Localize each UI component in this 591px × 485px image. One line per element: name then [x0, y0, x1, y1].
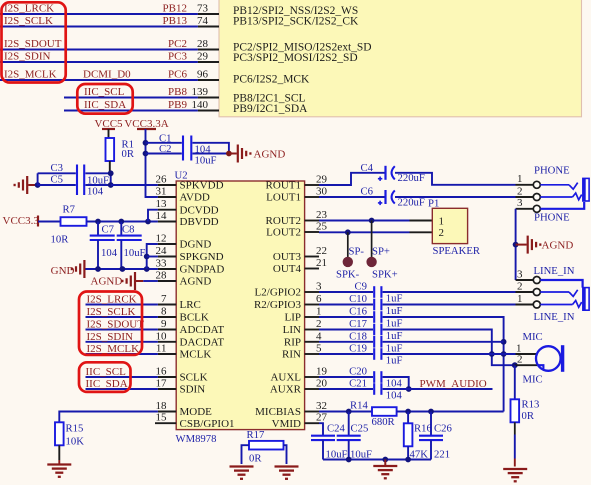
- svg-text:VCC3.3: VCC3.3: [3, 215, 40, 227]
- MIC label (bottom): [523, 373, 543, 385]
- wire IIC_SDA to chip: [86, 388, 158, 390]
- pin name AGND: [180, 276, 212, 288]
- power port VCC3.3: [3, 215, 40, 227]
- svg-text:21: 21: [316, 257, 327, 269]
- svg-text:1uF: 1uF: [386, 355, 403, 367]
- svg-text:IIC_SDA: IIC_SDA: [86, 378, 128, 390]
- port label PB12: [163, 3, 187, 15]
- pin 16 SCLK stub: [158, 376, 176, 378]
- pin 21 OUT4 stub: [305, 268, 319, 270]
- svg-text:BCLK: BCLK: [180, 312, 209, 324]
- LINE_IN pin 3: [516, 268, 541, 283]
- pin 5 RIN stub: [305, 353, 319, 355]
- junction C7 bottom: [95, 266, 101, 272]
- svg-text:2: 2: [517, 185, 523, 197]
- PHONE pin 1 contact: [540, 183, 577, 190]
- net label I2S_LRCK (chip): [87, 294, 137, 306]
- pin name RIN: [282, 349, 301, 361]
- wire VCC3.3 to R7: [38, 221, 61, 223]
- svg-text:RIP: RIP: [284, 337, 301, 349]
- pin name LIP: [285, 312, 302, 324]
- capacitor C8 10uF: [117, 222, 146, 270]
- pin 22 OUT3 stub: [305, 256, 319, 258]
- LINE_IN pin 2 contact: [540, 290, 577, 297]
- svg-text:220uF: 220uF: [398, 172, 425, 184]
- port label PB9: [168, 99, 187, 111]
- pin 1 LIP stub: [305, 316, 319, 318]
- svg-text:LOUT2: LOUT2: [266, 227, 301, 239]
- svg-text:1uF: 1uF: [386, 342, 403, 354]
- svg-text:7: 7: [161, 293, 167, 305]
- wire net to MCU pin PC3: [0, 61, 198, 63]
- pin 32 MICBIAS stub: [305, 411, 319, 413]
- pin 6 R2/GPIO3 stub: [305, 304, 319, 306]
- pin 24 SPKGND stub: [158, 256, 176, 258]
- pin name CSB/GPIO1: [180, 418, 235, 430]
- wire branch to DCVDD pin 13: [148, 210, 158, 222]
- svg-text:SPKGND: SPKGND: [180, 251, 224, 263]
- pin name MICBIAS: [255, 406, 301, 418]
- svg-text:L2/GPIO2: L2/GPIO2: [255, 287, 301, 299]
- svg-text:PB9: PB9: [168, 99, 187, 111]
- pin number 18: [156, 400, 168, 412]
- pin name RIP: [284, 337, 301, 349]
- speaker pin 1 stub: [410, 220, 433, 222]
- pin number 3: [316, 281, 322, 293]
- capacitor C10 1uF: [319, 293, 402, 317]
- svg-text:I2S_SDOUT: I2S_SDOUT: [87, 319, 145, 331]
- pin 23 ROUT2 stub: [305, 220, 319, 222]
- wire to SPKVDD pin 26: [111, 184, 158, 186]
- pin number 8: [161, 306, 167, 318]
- pin name MCLK: [180, 349, 212, 361]
- junction SPKGND row: [144, 254, 150, 260]
- pin number 24: [156, 245, 168, 257]
- junction on stem at C1 row: [143, 140, 149, 146]
- svg-text:18: 18: [156, 400, 168, 412]
- svg-text:11: 11: [156, 343, 167, 355]
- pin 31 AVDD stub: [158, 196, 176, 198]
- svg-text:C24: C24: [327, 422, 345, 434]
- ground GND (digital): [51, 260, 85, 278]
- wire R17 left lead to ground: [242, 445, 250, 464]
- svg-text:1uF: 1uF: [386, 305, 403, 317]
- svg-text:IIC_SCL: IIC_SCL: [86, 366, 127, 378]
- svg-text:PB13: PB13: [163, 15, 188, 27]
- pin name MODE: [180, 406, 213, 418]
- junction C25 top: [346, 409, 352, 415]
- wire C6 to PHONE pin 2: [395, 196, 516, 198]
- pin number 21: [316, 257, 327, 269]
- net label I2S_SCLK (chip): [87, 306, 136, 318]
- wire LOUT1 pin 30 to C6: [319, 196, 385, 198]
- capacitor C5 104: [38, 174, 104, 198]
- chip name WM8978: [176, 433, 217, 445]
- ground AGND (near C1/C2): [229, 145, 285, 163]
- net label I2S_MCLK (chip): [87, 343, 140, 355]
- wire I2S_SDIN to chip: [86, 341, 158, 343]
- capacitor C6 220uF: [361, 185, 425, 208]
- svg-text:R2/GPIO3: R2/GPIO3: [254, 299, 302, 311]
- svg-text:LINE_IN: LINE_IN: [534, 265, 575, 277]
- net label I2S_LRCK: [4, 3, 54, 15]
- svg-text:C3: C3: [51, 162, 63, 174]
- wire PWM_AUDIO net: [383, 388, 493, 390]
- svg-text:OUT4: OUT4: [273, 263, 302, 275]
- svg-text:C21: C21: [349, 378, 367, 390]
- svg-text:10uF: 10uF: [350, 448, 372, 460]
- svg-text:25: 25: [316, 221, 328, 233]
- svg-text:RIN: RIN: [282, 349, 301, 361]
- svg-text:29: 29: [197, 51, 209, 63]
- pin number 31: [156, 186, 167, 198]
- wire net to MCU pin PB8: [64, 97, 198, 99]
- net label IIC_SCL (top): [84, 86, 125, 98]
- svg-text:1: 1: [439, 215, 445, 227]
- svg-text:0R: 0R: [122, 148, 135, 160]
- svg-text:1uF: 1uF: [386, 330, 403, 342]
- junction at SPKVDD row: [108, 182, 114, 188]
- pin 25 LOUT2 stub: [305, 231, 319, 233]
- capacitor C2 10uF: [146, 143, 217, 166]
- pin number 30: [316, 186, 328, 198]
- net label DCMI_D0: [83, 69, 131, 81]
- pin name L2/GPIO2: [255, 287, 301, 299]
- port label PB13: [163, 15, 188, 27]
- wire R17 right lead to ground: [284, 445, 287, 464]
- junction R1 bottom at C3 row: [108, 170, 114, 176]
- pin number 26: [156, 174, 168, 186]
- capacitor C24 10uF: [311, 422, 348, 460]
- wire I2S_MCLK to chip: [86, 353, 158, 355]
- capacitor C16 1uF: [319, 306, 402, 330]
- junction R16 bottom: [405, 457, 411, 463]
- svg-text:R14: R14: [350, 399, 368, 411]
- highlight box around I2S net labels (top): [2, 2, 66, 82]
- svg-text:LIP: LIP: [285, 312, 302, 324]
- svg-text:SP+: SP+: [372, 245, 390, 257]
- svg-text:27: 27: [316, 412, 328, 424]
- wire net to MCU pin PB12: [0, 13, 198, 15]
- MCU port block U-STM32 (top yellow block): [219, 0, 582, 117]
- svg-text:LOUT1: LOUT1: [266, 192, 301, 204]
- svg-text:47K: 47K: [410, 448, 429, 460]
- svg-text:C18: C18: [349, 330, 367, 342]
- svg-text:AGND: AGND: [91, 275, 123, 287]
- junction C20/C21: [406, 386, 412, 392]
- pin name DCVDD: [180, 204, 219, 216]
- wire I2S_SDOUT to chip: [86, 329, 158, 331]
- svg-text:C16: C16: [349, 306, 367, 318]
- pin number 2: [316, 318, 322, 330]
- wire VMID pin 27 to C24: [319, 423, 323, 435]
- ground (left of R17): [230, 467, 254, 479]
- svg-text:33: 33: [156, 258, 168, 270]
- junction C3/C5 left node: [35, 182, 41, 188]
- svg-text:24: 24: [156, 245, 168, 257]
- pin name SCLK: [180, 372, 208, 384]
- MIC pin 2: [515, 354, 537, 366]
- svg-text:PC2: PC2: [168, 38, 187, 50]
- pin number 6: [316, 293, 322, 305]
- svg-text:74: 74: [197, 15, 209, 27]
- pin 20 AUXR stub: [305, 388, 319, 390]
- svg-text:C25: C25: [351, 422, 369, 434]
- svg-text:30: 30: [316, 186, 328, 198]
- svg-text:DGND: DGND: [180, 239, 212, 251]
- svg-text:AGND: AGND: [254, 149, 286, 161]
- pin PB9 stub: [198, 110, 219, 112]
- svg-text:5: 5: [316, 343, 322, 355]
- svg-text:C8: C8: [122, 223, 134, 235]
- svg-text:104: 104: [87, 185, 104, 197]
- svg-text:I2S_SDIN: I2S_SDIN: [87, 331, 134, 343]
- wire I2S_SCLK to chip: [86, 316, 158, 318]
- net label IIC_SDA (chip): [86, 378, 128, 390]
- pin number 19: [316, 366, 328, 378]
- svg-text:104: 104: [386, 378, 403, 390]
- wire ROUT1 pin 29 up to C4: [319, 173, 385, 185]
- wire PHONE pin 3 down to LINE_IN pin 3: [515, 209, 517, 280]
- test point SPK+: [366, 221, 397, 281]
- net label I2S_SDOUT: [4, 38, 62, 50]
- pin number 5: [316, 343, 322, 355]
- net label I2S_SCLK: [4, 15, 53, 27]
- wire net to MCU pin PC6: [0, 79, 198, 81]
- pin 19 AUXL stub: [305, 376, 319, 378]
- svg-text:AGND: AGND: [542, 240, 574, 252]
- svg-text:12: 12: [156, 233, 167, 245]
- pin number 14: [156, 210, 168, 222]
- svg-text:DCMI_D0: DCMI_D0: [83, 69, 131, 81]
- wire C10 to LINE_IN pin 1: [383, 304, 516, 306]
- svg-text:PC3: PC3: [168, 51, 187, 63]
- pin name LRC: [180, 299, 201, 311]
- junction C25 bottom: [346, 457, 352, 463]
- pin name LOUT2: [266, 227, 301, 239]
- svg-text:32: 32: [316, 400, 327, 412]
- wire C17 down mic return net: [383, 330, 515, 366]
- svg-text:26: 26: [156, 174, 168, 186]
- pin name ADCDAT: [180, 324, 225, 336]
- wire C3/C5 right plates to R1 node: [85, 173, 110, 185]
- junction at AGND node: [226, 151, 232, 157]
- svg-text:MIC: MIC: [523, 373, 543, 385]
- pin name OUT4: [273, 263, 302, 275]
- svg-text:22: 22: [316, 245, 327, 257]
- capacitor C1 104: [146, 132, 212, 160]
- pin number 20: [316, 378, 328, 390]
- svg-text:10uF: 10uF: [195, 154, 217, 166]
- junction C19 joins: [489, 351, 495, 357]
- svg-text:IIC_SCL: IIC_SCL: [84, 86, 125, 98]
- svg-text:MCLK: MCLK: [180, 349, 212, 361]
- svg-text:SPEAKER: SPEAKER: [433, 245, 481, 257]
- pin name SPKVDD: [180, 180, 224, 192]
- svg-text:C4: C4: [361, 162, 374, 174]
- pin 14 DBVDD stub: [158, 221, 176, 223]
- junction C8 top: [118, 219, 124, 225]
- ground (below R13): [503, 469, 527, 481]
- svg-text:I2S_MCLK: I2S_MCLK: [87, 343, 140, 355]
- net label IIC_SCL (chip): [86, 366, 127, 378]
- svg-text:R7: R7: [63, 203, 76, 215]
- svg-text:PB8: PB8: [168, 86, 187, 98]
- wire IIC_SCL to chip: [86, 376, 158, 378]
- svg-text:ROUT1: ROUT1: [266, 180, 301, 192]
- svg-text:1: 1: [517, 173, 523, 185]
- capacitor C4 220uF: [361, 162, 425, 184]
- svg-text:PC6/I2S2_MCK: PC6/I2S2_MCK: [233, 74, 310, 86]
- pin number 28: [197, 38, 209, 50]
- svg-text:28: 28: [197, 38, 209, 50]
- pin PC6 stub: [198, 79, 219, 81]
- pin name SDIN: [180, 384, 206, 396]
- svg-text:DBVDD: DBVDD: [180, 216, 219, 228]
- resistor R7 10R: [51, 203, 87, 245]
- pin 9 ADCDAT stub: [158, 329, 176, 331]
- pin number 29: [316, 174, 328, 186]
- pin number 11: [156, 343, 167, 355]
- pin number 10: [156, 330, 168, 342]
- svg-text:PB9/I2C1_SDA: PB9/I2C1_SDA: [233, 103, 308, 115]
- resistor R13 0R: [511, 365, 540, 466]
- capacitor C3 10uF: [38, 162, 109, 195]
- svg-text:PWM_AUDIO: PWM_AUDIO: [420, 378, 487, 390]
- svg-text:C7: C7: [102, 223, 115, 235]
- PHONE pin 1: [516, 173, 541, 188]
- resistor R15 10K: [55, 422, 84, 464]
- pin name DBVDD: [180, 216, 219, 228]
- svg-text:LIN: LIN: [283, 324, 301, 336]
- svg-text:10uF: 10uF: [124, 247, 146, 259]
- pin name AVDD: [180, 192, 210, 204]
- svg-text:31: 31: [156, 186, 167, 198]
- wire VCC3.3A stem to AVDD pin 31: [146, 129, 158, 197]
- junction R16 top: [405, 409, 411, 415]
- svg-text:28: 28: [156, 270, 168, 282]
- wire C16 down mic bias net: [383, 317, 504, 412]
- ground AGND (jack area): [516, 236, 574, 254]
- svg-text:WM8978: WM8978: [176, 433, 217, 445]
- svg-text:23: 23: [316, 209, 328, 221]
- svg-text:2: 2: [517, 280, 523, 292]
- power symbol VCC3.3A: [124, 118, 168, 130]
- speaker pin 2 stub: [410, 231, 433, 233]
- LINE_IN pin 2: [516, 280, 541, 295]
- pin number 22: [316, 245, 327, 257]
- net label I2S_SDIN (chip): [87, 331, 134, 343]
- svg-text:SPK+: SPK+: [372, 269, 398, 281]
- connector LINE_IN label (top): [534, 265, 575, 277]
- wire ground rail: [323, 459, 431, 461]
- pin 13 DCVDD stub: [158, 209, 176, 211]
- resistor R14 680R: [350, 399, 397, 428]
- svg-text:OUT3: OUT3: [273, 251, 302, 263]
- svg-text:1uF: 1uF: [386, 293, 403, 305]
- svg-text:R13: R13: [522, 398, 540, 410]
- pin PC2 stub: [198, 49, 219, 51]
- pin 33 GNDPAD stub: [158, 268, 176, 270]
- svg-text:C10: C10: [349, 293, 367, 305]
- resistor R17 0R: [247, 429, 284, 464]
- wire DGND pin 12 branch: [147, 244, 158, 269]
- svg-text:MICBIAS: MICBIAS: [255, 406, 301, 418]
- pin 15 CSB/GPIO1 stub: [155, 422, 176, 424]
- capacitor C7 104: [90, 222, 118, 270]
- net label PWM_AUDIO: [420, 378, 487, 390]
- pin PB8 stub: [198, 97, 219, 99]
- svg-text:PB13/SPI2_SCK/I2S2_CK: PB13/SPI2_SCK/I2S2_CK: [233, 16, 359, 28]
- pin number 1: [316, 306, 322, 318]
- pin name ROUT1: [266, 180, 301, 192]
- LINE_IN pin 1 contact: [540, 301, 581, 308]
- pin number 7: [161, 293, 167, 305]
- wire net to MCU pin PC2: [0, 49, 198, 51]
- svg-text:73: 73: [197, 3, 209, 15]
- svg-text:0R: 0R: [249, 452, 262, 464]
- resistor R1 0R: [106, 138, 135, 173]
- pin 26 SPKVDD stub: [158, 184, 176, 186]
- svg-text:PHONE: PHONE: [534, 212, 570, 224]
- svg-text:680R: 680R: [372, 416, 396, 428]
- pin 8 BCLK stub: [158, 316, 176, 318]
- svg-text:I2S_SDIN: I2S_SDIN: [4, 51, 51, 63]
- pin 28 AGND stub: [158, 280, 176, 282]
- wire MODE pin 18 to R15: [59, 412, 158, 423]
- svg-text:0R: 0R: [522, 410, 535, 422]
- ground (far left, C3/C5): [15, 176, 38, 194]
- svg-text:AUXL: AUXL: [270, 372, 301, 384]
- wire LINE_IN pin 3 to sleeve: [540, 280, 582, 288]
- pin name GNDPAD: [180, 264, 225, 276]
- svg-text:I2S_MCLK: I2S_MCLK: [4, 69, 57, 81]
- svg-text:P1: P1: [428, 197, 439, 209]
- wire net to MCU pin PB13: [0, 26, 198, 28]
- pin name LOUT1: [266, 192, 301, 204]
- highlight box around IIC labels (chip): [79, 362, 131, 392]
- svg-text:96: 96: [197, 69, 209, 81]
- pin number 17: [156, 378, 168, 390]
- svg-text:2: 2: [316, 318, 322, 330]
- pin PB13 stub: [198, 26, 219, 28]
- LINE_IN jack sleeve body: [582, 287, 589, 310]
- svg-text:ADCDAT: ADCDAT: [180, 324, 225, 336]
- svg-text:C5: C5: [51, 174, 63, 186]
- pin 2 LIN stub: [305, 329, 319, 331]
- svg-text:PC6: PC6: [168, 69, 187, 81]
- wire R14 to mic bias vertical: [397, 411, 504, 413]
- svg-text:1: 1: [517, 293, 523, 305]
- svg-text:R16: R16: [414, 422, 432, 434]
- svg-text:14: 14: [156, 210, 168, 222]
- svg-text:C19: C19: [349, 343, 367, 355]
- wire GND rail to GNDPAD pin 33: [85, 268, 157, 270]
- junction C18 joins: [501, 339, 507, 345]
- svg-text:104: 104: [386, 390, 403, 402]
- svg-text:C6: C6: [361, 185, 374, 197]
- pin number 4: [316, 330, 322, 342]
- svg-text:SDIN: SDIN: [180, 384, 206, 396]
- junction R13 top: [512, 362, 518, 368]
- pin number 15: [156, 412, 168, 424]
- wire PHONE pin 3 to sleeve: [540, 202, 584, 209]
- svg-text:20: 20: [316, 378, 328, 390]
- junction C26 top: [428, 409, 434, 415]
- pin PB12 stub: [198, 13, 219, 15]
- capacitor C26 221: [419, 412, 452, 461]
- LINE_IN pin 1: [516, 293, 541, 308]
